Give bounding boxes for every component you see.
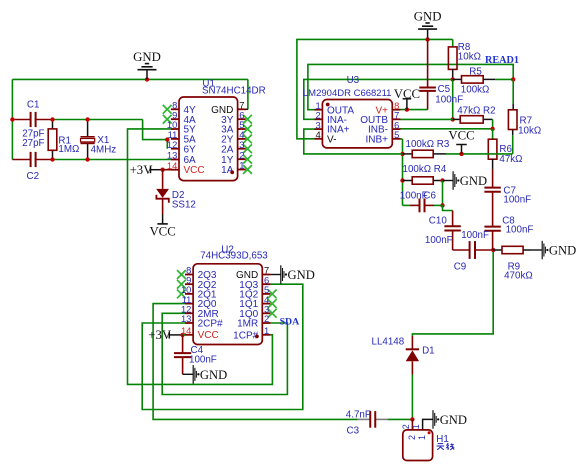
svg-text:3: 3 [239, 139, 244, 150]
svg-text:1: 1 [411, 424, 421, 429]
svg-text:5: 5 [394, 129, 399, 140]
svg-text:GND: GND [460, 174, 487, 188]
svg-text:1CP#: 1CP# [233, 330, 258, 341]
svg-text:C10: C10 [429, 216, 448, 227]
svg-text:GND: GND [549, 244, 576, 258]
svg-text:2: 2 [407, 435, 417, 440]
svg-text:VCC: VCC [149, 224, 175, 238]
svg-text:47kΩ: 47kΩ [499, 154, 522, 165]
svg-text:1MΩ: 1MΩ [58, 144, 79, 155]
svg-text:R5: R5 [469, 66, 482, 77]
svg-text:+3V: +3V [130, 163, 154, 177]
svg-text:74HC393D,653: 74HC393D,653 [200, 251, 268, 262]
svg-text:VCC: VCC [198, 330, 219, 341]
svg-text:100nF: 100nF [189, 355, 217, 366]
svg-text:14: 14 [167, 160, 177, 171]
svg-text:13: 13 [181, 313, 191, 324]
svg-text:+3V: +3V [148, 328, 172, 342]
svg-text:100nF: 100nF [425, 235, 453, 246]
svg-text:SN74HC14DR: SN74HC14DR [202, 86, 266, 97]
svg-text:27pF: 27pF [22, 138, 44, 149]
svg-text:GND: GND [440, 413, 467, 427]
svg-text:100kΩ: 100kΩ [461, 85, 490, 96]
svg-text:1MR: 1MR [237, 319, 258, 330]
svg-text:4.7nF: 4.7nF [346, 410, 371, 421]
svg-text:100kΩ R4: 100kΩ R4 [403, 164, 447, 175]
svg-text:VCC: VCC [448, 129, 474, 143]
svg-text:INB+: INB+ [365, 134, 388, 145]
svg-text:4MHz: 4MHz [91, 145, 117, 156]
svg-text:GND: GND [288, 268, 315, 282]
svg-text:V-: V- [327, 134, 336, 145]
svg-text:C9: C9 [454, 261, 467, 272]
svg-text:GND: GND [414, 9, 442, 23]
svg-text:100kΩ R3: 100kΩ R3 [406, 139, 450, 150]
svg-text:GND: GND [133, 50, 161, 64]
svg-text:GND: GND [200, 368, 227, 382]
svg-text:10kΩ: 10kΩ [518, 126, 541, 137]
svg-text:SS12: SS12 [172, 199, 196, 210]
svg-text:C1: C1 [27, 100, 40, 111]
svg-text:1: 1 [417, 435, 427, 440]
svg-text:C2: C2 [27, 171, 40, 182]
svg-text:1: 1 [264, 325, 269, 336]
svg-text:10kΩ: 10kΩ [458, 51, 481, 62]
svg-text:14: 14 [181, 325, 191, 336]
svg-text:470kΩ: 470kΩ [504, 271, 533, 282]
svg-text:VCC: VCC [184, 165, 205, 176]
svg-text:100nF: 100nF [503, 195, 531, 206]
svg-text:C3: C3 [347, 426, 360, 437]
svg-text:C5: C5 [438, 84, 451, 95]
svg-text:D1: D1 [422, 346, 435, 357]
svg-text:4: 4 [315, 129, 320, 140]
svg-text:100nF: 100nF [506, 224, 534, 235]
svg-text:U3: U3 [347, 75, 360, 86]
svg-text:LL4148: LL4148 [372, 337, 405, 348]
svg-text:2: 2 [401, 424, 411, 429]
svg-text:6Y: 6Y [184, 144, 197, 155]
svg-text:100nF: 100nF [435, 95, 463, 106]
svg-text:LM2904DR C668211: LM2904DR C668211 [303, 88, 392, 99]
svg-text:2CP#: 2CP# [198, 319, 223, 330]
svg-text:47kΩ R2: 47kΩ R2 [457, 106, 495, 117]
svg-text:100nF: 100nF [461, 230, 489, 241]
svg-text:1: 1 [239, 160, 244, 171]
svg-text:SDA: SDA [280, 317, 300, 328]
svg-text:C6: C6 [423, 190, 436, 201]
svg-text:12: 12 [167, 139, 177, 150]
svg-text:2A: 2A [221, 144, 234, 155]
svg-text:READ1: READ1 [485, 55, 519, 66]
svg-text:2: 2 [264, 313, 269, 324]
